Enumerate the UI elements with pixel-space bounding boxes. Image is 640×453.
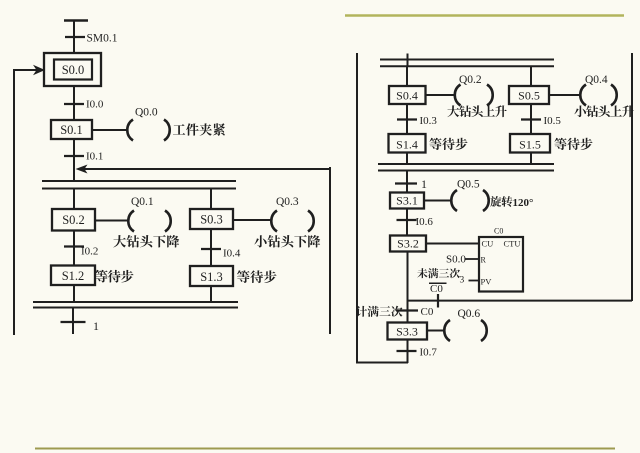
label 等待步 S1.4	[429, 138, 467, 150]
wire S0.3 to coil Q0.3	[233, 219, 271, 221]
label Q0.2	[459, 74, 482, 86]
svg-text:S3.2: S3.2	[397, 237, 419, 251]
bottom divider line	[35, 448, 615, 450]
svg-text:I0.5: I0.5	[544, 115, 562, 127]
action text 小钻头下降	[254, 235, 320, 247]
svg-text:I0.4: I0.4	[223, 248, 241, 260]
transition I0.3	[397, 118, 417, 120]
label 等待步 right	[237, 270, 277, 283]
svg-text:I0.0: I0.0	[86, 99, 104, 111]
svg-text:R: R	[481, 256, 487, 265]
svg-text:SM0.1: SM0.1	[87, 33, 118, 45]
wire branch1 top	[73, 188, 75, 209]
transition I0.4	[201, 248, 221, 250]
transition I0.6	[397, 219, 417, 221]
transition 1 bottom	[61, 321, 86, 323]
svg-text:I0.1: I0.1	[86, 151, 103, 163]
wire S0.5 to coil Q0.4	[549, 94, 580, 96]
svg-text:S0.3: S0.3	[200, 213, 223, 227]
svg-text:I0.2: I0.2	[81, 246, 98, 258]
step S1.3	[190, 266, 233, 286]
wire loop branch right	[408, 300, 633, 302]
transition I0.0	[64, 103, 84, 105]
label Q0.5	[457, 179, 480, 191]
coil Q0.4	[580, 85, 616, 106]
wire S0.0 to R	[465, 258, 479, 260]
label I0.4	[223, 248, 241, 260]
svg-text:PV: PV	[481, 277, 493, 287]
wire S0.3 to S1.3	[210, 229, 212, 266]
coil Q0.5	[451, 190, 488, 211]
step S0.1	[51, 120, 92, 139]
step S3.3	[388, 323, 428, 340]
transition I0.7	[397, 350, 417, 352]
svg-text:Q0.6: Q0.6	[458, 308, 481, 320]
svg-text:1: 1	[93, 319, 99, 333]
action text 小钻头上升	[574, 105, 634, 117]
step S3.2	[390, 236, 426, 252]
convergence double line right	[378, 164, 554, 171]
svg-text:S1.2: S1.2	[62, 269, 85, 283]
label C0-bar	[429, 283, 447, 295]
wire S1.5 to convergence	[530, 152, 532, 164]
wire S0.1 to coil Q0.0	[92, 129, 127, 131]
coil Q0.1	[128, 211, 170, 232]
transition C0-bar tick	[437, 294, 439, 308]
label I0.7	[420, 347, 438, 359]
wire S1.4 to convergence	[406, 152, 408, 165]
arrow from right rail	[76, 165, 331, 174]
svg-text:S1.3: S1.3	[200, 270, 223, 284]
wire right chart left rail	[356, 53, 358, 363]
coil Q0.2	[455, 85, 493, 106]
transition I0.1	[64, 155, 84, 157]
svg-text:Q0.0: Q0.0	[135, 107, 158, 119]
convergence double line	[33, 302, 238, 308]
wire S0.4 to coil Q0.2	[426, 94, 455, 96]
wire branch S0.5 top	[530, 66, 532, 86]
svg-text:CU: CU	[482, 239, 494, 249]
svg-text:S3.1: S3.1	[396, 194, 418, 208]
label I0.0	[86, 99, 104, 111]
entry arrow into S0.0	[14, 65, 45, 75]
step S0.5	[509, 86, 549, 104]
action text 大钻头下降	[113, 235, 179, 247]
label I0.2	[81, 246, 98, 258]
wire S3.3 to coil Q0.6	[427, 330, 444, 332]
top divider line	[345, 14, 624, 16]
wire S0.2 to coil Q0.1	[95, 220, 128, 222]
svg-text:120°: 120°	[513, 197, 534, 209]
wire S0.1 to divergence	[73, 139, 75, 181]
svg-text:Q0.4: Q0.4	[585, 74, 608, 86]
divergence double line right	[380, 60, 554, 67]
label SM0.1	[87, 33, 118, 45]
svg-text:S1.5: S1.5	[519, 137, 541, 151]
svg-text:Q0.2: Q0.2	[459, 74, 482, 86]
svg-text:C0: C0	[421, 306, 434, 318]
wire S3.1 to S3.2	[406, 209, 408, 236]
transition C0	[396, 309, 418, 311]
wire S1.2 to convergence	[73, 285, 75, 302]
svg-text:I0.6: I0.6	[416, 216, 434, 228]
label Q0.1	[131, 196, 154, 208]
step S1.5	[510, 134, 550, 153]
wire 3 to PV	[469, 280, 480, 282]
step S0.3	[190, 209, 233, 229]
coil Q0.3	[271, 211, 313, 232]
label I0.3	[420, 115, 438, 127]
wire initial rail top bar	[64, 19, 88, 22]
wire left feedback rail	[13, 69, 15, 335]
wire S0.2 to S1.2	[73, 231, 75, 266]
label 1 bottom	[93, 319, 99, 333]
svg-text:Q0.5: Q0.5	[457, 179, 480, 191]
label CTU	[504, 239, 521, 249]
svg-text:CTU: CTU	[504, 239, 521, 249]
wire initial stub	[73, 20, 75, 53]
step S1.2	[51, 266, 95, 286]
action text 旋转120°	[490, 196, 533, 209]
coil Q0.0	[127, 120, 169, 141]
svg-text:1: 1	[421, 177, 427, 191]
label 计满三次	[356, 306, 403, 317]
label C0 above counter	[494, 227, 503, 236]
label 等待步 left	[95, 270, 134, 283]
label I0.1	[86, 151, 103, 163]
wire top stub	[407, 54, 409, 68]
initial step S0.0	[44, 53, 101, 86]
label 3	[460, 276, 465, 286]
pin label PV	[481, 277, 493, 287]
svg-text:S0.4: S0.4	[396, 89, 418, 103]
wire right chart right rail	[631, 53, 633, 301]
label 1 right	[421, 177, 427, 191]
action text 工件夹紧	[173, 123, 225, 135]
svg-text:S0.2: S0.2	[62, 213, 85, 227]
divergence double line	[42, 181, 236, 189]
label Q0.0	[135, 107, 158, 119]
svg-text:I0.7: I0.7	[420, 347, 438, 359]
svg-text:S0.0: S0.0	[446, 254, 466, 266]
transition SM0.1	[65, 36, 85, 38]
wire branch2 top	[210, 188, 212, 209]
svg-text:C0: C0	[494, 227, 503, 236]
svg-text:Q0.3: Q0.3	[276, 196, 299, 208]
wire convergence to S3.1	[406, 171, 408, 193]
pin label CU	[482, 239, 494, 249]
wire branch S0.4 top	[406, 66, 408, 86]
svg-text:S1.4: S1.4	[396, 137, 418, 151]
wire S0.5 to S1.5	[530, 104, 532, 134]
label C0	[421, 306, 434, 318]
svg-text:I0.3: I0.3	[420, 115, 438, 127]
transition 1 right	[395, 182, 417, 184]
wire S1.3 to convergence	[210, 286, 212, 302]
label I0.6	[416, 216, 434, 228]
svg-text:S0.1: S0.1	[60, 123, 83, 137]
counter C0 box	[479, 237, 523, 292]
label 等待步 S1.5	[554, 138, 592, 150]
svg-text:S0.5: S0.5	[518, 89, 540, 103]
label Q0.3	[276, 196, 299, 208]
action text 大钻头上升	[447, 105, 506, 117]
step S0.2	[52, 209, 95, 231]
transition I0.2	[64, 245, 84, 247]
label Q0.4	[585, 74, 608, 86]
svg-text:C0: C0	[430, 283, 443, 295]
label I0.5	[544, 115, 562, 127]
pin label R	[481, 256, 487, 265]
wire S0.0 to S0.1	[73, 86, 75, 120]
wire S3.2 down to bottom	[407, 252, 409, 364]
wire S3.2 to counter CU	[426, 243, 479, 245]
svg-text:3: 3	[460, 276, 465, 286]
step S3.1	[390, 193, 424, 209]
wire right feedback rail	[329, 167, 331, 334]
wire right chart bottom	[356, 362, 408, 364]
wire S3.1 to coil Q0.5	[424, 200, 451, 202]
transition I0.5	[521, 118, 541, 120]
step S0.4	[389, 86, 426, 104]
svg-text:S3.3: S3.3	[396, 325, 418, 339]
label 未满三次	[417, 268, 460, 278]
wire S0.4 to S1.4	[406, 104, 408, 134]
svg-text:S0.0: S0.0	[62, 63, 85, 77]
coil Q0.6	[444, 320, 486, 341]
step S1.4	[389, 134, 426, 153]
label Q0.6	[458, 308, 481, 320]
label S0.0 reset	[446, 254, 466, 266]
wire below convergence	[72, 308, 74, 335]
svg-text:Q0.1: Q0.1	[131, 196, 154, 208]
